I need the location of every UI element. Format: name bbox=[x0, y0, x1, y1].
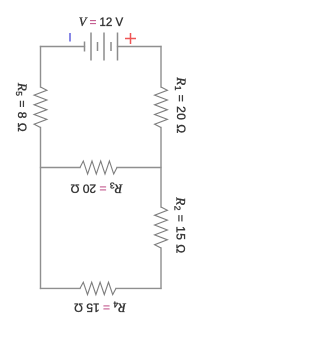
resistor R3 (zigzag, middle branch) bbox=[80, 161, 117, 174]
wire left side: top corner down to resistor R5 bbox=[40, 47, 42, 88]
battery negative short plate 3 bbox=[110, 42, 112, 51]
battery negative short plate 2 bbox=[97, 42, 99, 51]
svg-text:R4 = 15 Ω: R4 = 15 Ω bbox=[74, 300, 127, 316]
wire middle branch left: node on left wire to R3 bbox=[41, 167, 81, 169]
wire top-left: left corner to battery negative plate bbox=[41, 46, 85, 48]
resistor R5 (zigzag, left branch) bbox=[34, 87, 47, 128]
svg-text:R3 = 20 Ω: R3 = 20 Ω bbox=[70, 181, 123, 197]
wire right side: R1 down to middle-branch junction and R2 bbox=[160, 128, 162, 208]
polarity label + (red) bbox=[125, 33, 136, 44]
wire bottom-left: corner to R4 bbox=[41, 287, 81, 289]
svg-text:V = 12 V: V = 12 V bbox=[79, 15, 124, 29]
battery positive long plate 3 bbox=[117, 33, 119, 61]
resistor R4 (zigzag, bottom branch) bbox=[80, 282, 116, 294]
resistor R2 (zigzag, lower right branch) bbox=[155, 207, 168, 248]
wire left side: R5 down to bottom-left corner bbox=[40, 128, 42, 289]
current label I (blue) bbox=[69, 33, 71, 42]
svg-text:R2 = 15 Ω: R2 = 15 Ω bbox=[173, 196, 188, 254]
battery V (3-cell battery, top branch) bbox=[85, 33, 118, 61]
battery negative short plate 1 bbox=[84, 42, 86, 52]
resistor R1 (zigzag, upper right branch) bbox=[155, 87, 168, 128]
wire top-right: battery positive plate to right corner bbox=[118, 46, 162, 48]
wire right side: R2 down to bottom-right corner bbox=[160, 248, 162, 288]
wire right side: top corner down to resistor R1 bbox=[160, 47, 162, 88]
battery positive long plate 2 bbox=[103, 33, 105, 61]
svg-text:R1 = 20 Ω: R1 = 20 Ω bbox=[173, 76, 187, 134]
svg-text:R5 = 8 Ω: R5 = 8 Ω bbox=[14, 82, 30, 132]
battery positive long plate 1 bbox=[90, 33, 92, 61]
wire bottom-right: R4 to bottom-right corner bbox=[116, 287, 161, 289]
wire middle branch right: R3 to node on right wire bbox=[117, 167, 161, 169]
